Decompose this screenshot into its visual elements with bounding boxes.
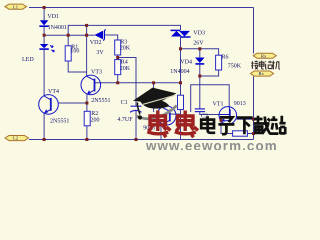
svg-text:VD1: VD1 [47, 14, 59, 20]
wire VT3 emitter to R2 [86, 94, 88, 111]
resistor R6 750K [216, 55, 222, 70]
transistor VT1 9013 [219, 107, 237, 125]
transistor VT3 2N5551 [81, 75, 101, 95]
wire VT2 base stub [170, 113, 181, 115]
node VD4 bottom R6 [198, 75, 201, 78]
svg-text:9013: 9013 [234, 101, 246, 107]
svg-text:Rx: Rx [259, 71, 265, 76]
wire VT1 emitter to R7 [221, 121, 233, 134]
glyph jie [251, 61, 258, 70]
capacitor C1 4.7UF [130, 106, 142, 112]
junction node dots [43, 6, 255, 141]
svg-text:www.eeworm.com: www.eeworm.com [145, 138, 278, 150]
node VD3 line [179, 47, 182, 50]
port P3 right upper [253, 53, 276, 58]
svg-text:3V: 3V [96, 50, 104, 56]
diode VD4 1N4004 [195, 58, 205, 64]
svg-text:750K: 750K [228, 63, 242, 69]
wire port P4 drop to bottom rail [253, 77, 255, 140]
port P2 bottom left [5, 136, 29, 141]
node top rail VD1 [43, 6, 46, 9]
wire R3 R4 junction to C1 [118, 58, 136, 107]
svg-text:200: 200 [91, 118, 100, 124]
wire C1 bottom to rail [135, 111, 137, 140]
node rail R2 [85, 138, 88, 141]
resistor R4 20K [115, 60, 121, 75]
wire R4 bottom stub [117, 75, 119, 83]
svg-text:L2: L2 [13, 136, 18, 141]
wire bottom rail [29, 139, 254, 141]
svg-text:VT4: VT4 [48, 89, 59, 95]
wire R1 bottom to VT3 collector line [68, 61, 86, 72]
wire VD1 cathode to node B [43, 27, 45, 35]
watermark graduation cap [133, 88, 177, 120]
wire VT3 base line L1 [95, 82, 181, 84]
node VD4 top [198, 47, 201, 50]
glyph xia [237, 118, 253, 135]
wire right drop to port P3 [253, 8, 255, 54]
wire R2 bottom to rail [86, 126, 88, 140]
wire R3 bottom stub [117, 55, 119, 60]
transistor VT4 2N5551 [39, 95, 59, 115]
glyph zai [254, 116, 271, 134]
glyph ji [272, 61, 280, 70]
svg-text:1N4004: 1N4004 [170, 69, 189, 75]
wire node line VD3 VD4 R6 [181, 49, 219, 55]
node L1 VT2 drop [152, 81, 155, 84]
wire R1 top stub [67, 35, 69, 46]
svg-text:LED: LED [22, 57, 34, 63]
svg-text:2N5551: 2N5551 [91, 98, 110, 104]
node L1 R5 vertical [179, 81, 182, 84]
watermark chongchong red characters [147, 111, 198, 138]
node VT4 base R2 [85, 102, 88, 105]
chong 2 [175, 111, 198, 138]
glyph zhan [270, 116, 286, 134]
wire VT4 emitter to bottom rail [43, 113, 45, 140]
chong 1 [147, 111, 170, 138]
wire VD2 anode to R3 [104, 35, 117, 40]
wire R6 bottom to VD4 node [200, 70, 219, 76]
wire node vertical to VT3 collector [86, 25, 88, 76]
glyph zi [218, 117, 234, 134]
diode VD1 1N4001 [39, 20, 48, 26]
resistor R2 200 [84, 111, 90, 126]
svg-text:2N5551: 2N5551 [50, 119, 69, 125]
svg-text:L1: L1 [13, 4, 18, 9]
bidirectional zener VD3 26V [171, 30, 191, 37]
svg-text:VD2: VD2 [90, 40, 102, 46]
wire VT2 emitter down [160, 124, 162, 140]
svg-text:VT3: VT3 [91, 70, 102, 76]
node line A x87 [85, 24, 88, 27]
node VT1 emitter circle edge [220, 119, 223, 122]
svg-text:VT1: VT1 [213, 101, 224, 107]
glyph hua [266, 61, 273, 69]
node line B R1 [67, 34, 70, 37]
svg-text:20K: 20K [120, 66, 131, 72]
node line B VD1 [43, 34, 46, 37]
glyph dian [259, 61, 264, 69]
wire VT4 base line [59, 102, 87, 104]
node right drop R7 [252, 132, 255, 135]
port P1 top left [5, 4, 27, 9]
wire R7 right stub [247, 133, 253, 135]
label 接电话机 hand drawn [251, 61, 280, 70]
port P4 right lower [251, 71, 274, 76]
wire line B [44, 34, 87, 36]
svg-text:R2: R2 [91, 111, 98, 117]
wire VD4 top stub [199, 49, 201, 58]
svg-text:20K: 20K [120, 45, 131, 51]
resistor R1 100 [65, 46, 71, 61]
svg-text:R6: R6 [222, 55, 229, 61]
wire top rail [29, 7, 254, 9]
node right drop VT1 line [252, 118, 255, 121]
svg-text:100: 100 [70, 48, 79, 54]
svg-text:R4: R4 [121, 59, 128, 65]
zener diode VD2 3V [94, 30, 105, 41]
svg-text:4.7UF: 4.7UF [117, 117, 133, 123]
LED [39, 44, 54, 52]
wire VD2 cathode stub [87, 34, 95, 36]
wire VD3 bottom vertical through node to R5 [180, 37, 182, 95]
wire LED top [43, 35, 45, 44]
wire line L3 to VT1 collector [191, 85, 230, 112]
svg-text:VD4: VD4 [180, 59, 192, 65]
wire VT2 base drop [153, 83, 155, 112]
watermark dianzi xiazaizhan black characters [201, 116, 285, 134]
glyph dian2 [201, 116, 215, 133]
resistor R3 20K [115, 40, 121, 55]
resistor R5 [178, 95, 184, 109]
svg-text:VD3: VD3 [193, 31, 205, 37]
transistor VT2 9013 [157, 106, 176, 125]
wire R5 bottom to rail [180, 110, 182, 140]
svg-text:C1: C1 [121, 100, 128, 106]
node rail C1 [135, 138, 138, 141]
wire VT1 emitter right line [236, 118, 253, 120]
svg-text:Rx: Rx [261, 53, 267, 58]
wire LED cathode down to VT4 collector [43, 50, 45, 96]
node R4 bottom on L1 [116, 81, 119, 84]
svg-text:26V: 26V [193, 40, 204, 46]
node R3 R4 junction [116, 56, 119, 59]
wire line A [68, 25, 180, 35]
wire C2 bottom to VT1 base [200, 112, 219, 115]
svg-text:1N4001: 1N4001 [48, 25, 67, 31]
node rail VT4 [43, 138, 46, 141]
wire VD4 anode down [199, 65, 201, 109]
node line B x87 [85, 34, 88, 37]
capacitor C2 [195, 109, 205, 112]
wire left vertical VD1 top [43, 8, 45, 21]
resistor R7 horizontal [233, 131, 248, 136]
